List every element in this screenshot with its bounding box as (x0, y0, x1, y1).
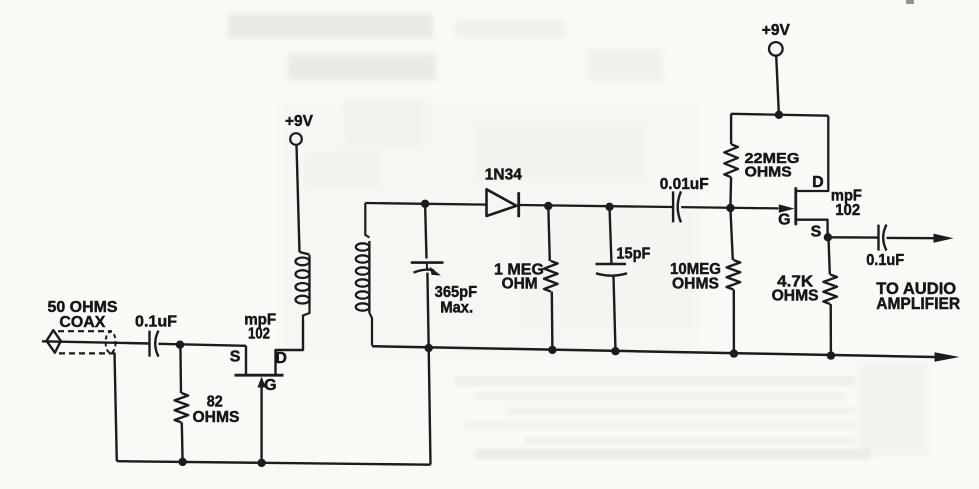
node R1 ground dot (178, 458, 186, 466)
node diode out dot (544, 202, 552, 210)
svg-text:365pF: 365pF (435, 284, 478, 301)
label Q1 102 (248, 325, 270, 342)
wire R1 to ground bus (181, 423, 184, 462)
svg-text:0.1uF: 0.1uF (135, 314, 177, 331)
capacitor C4 0.01uF (673, 191, 681, 222)
transistor Q1 gate arrow (257, 377, 265, 388)
wire C5 to output arrow (887, 237, 936, 240)
label C3 15pF (616, 246, 650, 263)
label R4 OHMS (672, 275, 719, 292)
svg-text:D: D (812, 174, 824, 191)
wire C2 center stub (426, 263, 428, 270)
svg-text:OHMS: OHMS (193, 409, 240, 426)
node 10MEG bus dot (730, 349, 738, 357)
node gate ground dot (257, 459, 265, 467)
node 365pF top dot (421, 200, 429, 208)
diode D1 1N34 triangle (487, 189, 517, 216)
svg-text:102: 102 (248, 325, 270, 342)
transistor Q2 source lead (796, 220, 828, 238)
svg-text:15pF: 15pF (616, 246, 650, 263)
label R4 10MEG (670, 261, 721, 278)
label R1 OHMS (193, 409, 240, 426)
label C2 365pF (435, 284, 478, 301)
label Q1 S (230, 349, 241, 366)
wire Q1 gate to ground (260, 385, 262, 463)
label Q1 D (275, 350, 287, 367)
label R2 OHM (502, 276, 538, 293)
svg-text:G: G (778, 211, 790, 228)
resistor R4 10MEG OHMS (727, 260, 741, 290)
wire C2 junction to bottom ground (429, 348, 431, 465)
label TO AUDIO (876, 279, 956, 298)
capacitor C3 15pF top plate (596, 263, 627, 266)
label R3 OHMS (745, 164, 792, 181)
output arrowhead audio (934, 234, 954, 243)
wire R2 to bus (551, 292, 554, 350)
resistor R1 82 OHMS (175, 393, 189, 423)
svg-text:AMPLIFIER: AMPLIFIER (876, 294, 960, 313)
coax connector plug (50 ohms coax) (47, 330, 61, 353)
svg-text:0.01uF: 0.01uF (660, 176, 709, 193)
svg-text:102: 102 (835, 202, 860, 219)
wire source to C5 (828, 236, 879, 239)
coax shield dashed bottom line (59, 352, 115, 354)
svg-text:Max.: Max. (440, 300, 473, 317)
svg-text:S: S (811, 224, 822, 241)
label Q1 G (264, 377, 276, 394)
node +9V rail dot (775, 111, 783, 119)
inductor L2 secondary coil (356, 203, 372, 346)
capacitor C5 0.1uF output (879, 225, 887, 251)
svg-text:D: D (275, 350, 287, 367)
node C3 bus dot (611, 347, 619, 355)
label R5 4.7K (777, 274, 813, 291)
wire junction to R1 (179, 345, 182, 393)
power terminal +9V circle (left) (290, 133, 302, 145)
svg-text:OHMS: OHMS (772, 288, 819, 305)
wire +9V horizontal rail (731, 114, 828, 116)
wire C2 to bus junction (427, 273, 428, 349)
wire 10MEG to bus (733, 290, 736, 354)
wire coax center conductor to C1 (42, 341, 150, 343)
label Q2 mpF (831, 188, 862, 205)
wire C3 to bus (614, 277, 616, 352)
svg-text:OHMS: OHMS (745, 164, 792, 181)
svg-text:0.1uF: 0.1uF (866, 252, 904, 269)
inductor L1 primary coil (296, 252, 310, 321)
label Q2 102 (835, 202, 860, 219)
svg-text:+9V: +9V (285, 113, 313, 130)
node R2 bus dot (548, 346, 556, 354)
resistor R3 22MEG OHMS (724, 144, 738, 177)
wire main bottom bus (372, 346, 935, 357)
wire dot to C3 (610, 207, 612, 264)
svg-text:82: 82 (207, 394, 223, 411)
wire +9V to L1 (297, 145, 300, 252)
label R3 22MEG (745, 150, 800, 167)
bus output arrowhead (935, 352, 960, 362)
svg-text:OHMS: OHMS (672, 275, 719, 292)
node bus/C2 junction dot (425, 344, 433, 352)
svg-text:1N34: 1N34 (485, 166, 522, 183)
wire bias column lower (730, 208, 732, 260)
wire bias column upper (729, 177, 732, 208)
node Q2 source dot (824, 233, 832, 241)
label +9V left (285, 113, 313, 130)
transistor Q1 drain lead (276, 321, 304, 375)
diode D1 cathode bar (517, 192, 520, 217)
node 15pF top dot (605, 203, 613, 211)
transistor Q2 channel bar (794, 187, 797, 225)
power terminal +9V circle (right) (769, 42, 783, 56)
label Q1 mpF (244, 311, 276, 328)
coax shield dashed top line (58, 330, 112, 332)
label C5 0.1uF (866, 252, 904, 269)
wire coax shield to ground bus (115, 353, 117, 462)
label D1 1N34 (485, 166, 522, 183)
label R2 1 MEG (494, 262, 544, 279)
wire R5 to bus (830, 304, 833, 356)
resistor R5 4.7K OHMS (823, 275, 837, 305)
wire +9V stem (776, 56, 779, 115)
wire rail to Q2 drain (796, 116, 829, 191)
transistor Q1 channel bar (235, 374, 284, 377)
transistor Q1 source lead (245, 346, 247, 375)
label COAX (59, 314, 105, 331)
capacitor C3 15pF curved plate (596, 273, 627, 275)
label C2 Max. (440, 300, 473, 317)
wire C1 to FET1 source (159, 344, 247, 346)
svg-text:OHM: OHM (502, 276, 538, 293)
wire bottom ground run (117, 461, 431, 465)
capacitor C2 365pF curved plate with arrow (414, 267, 442, 276)
label 50 OHMS (48, 299, 118, 316)
svg-text:+9V: +9V (762, 22, 790, 39)
resistor R2 1 MEG OHM (544, 261, 558, 292)
capacitor C1 0.1uF input (150, 331, 159, 357)
wire top detector bus (365, 203, 778, 208)
node bias column top-wire dot (726, 204, 734, 212)
node R5 bus dot (827, 351, 835, 359)
label C4 0.01uF (660, 176, 709, 193)
svg-text:S: S (230, 349, 241, 366)
svg-text:G: G (264, 377, 276, 394)
label AMPLIFIER (876, 294, 960, 313)
node input junction dot (176, 341, 184, 349)
wire dot to R2 (548, 206, 550, 261)
coax end dashed ellipse (106, 332, 116, 353)
wire source node to R5 (829, 237, 830, 274)
transistor Q2 gate arrow (779, 204, 795, 212)
label Q2 S (811, 224, 822, 241)
label R1 82 (207, 394, 223, 411)
label R5 OHMS (772, 288, 819, 305)
capacitor C2 365pF top plate (411, 261, 444, 264)
label +9V right (762, 22, 790, 39)
label Q2 D (812, 174, 824, 191)
label C1 0.1uF (135, 314, 177, 331)
wire top dot to C2 (425, 204, 426, 259)
label Q2 G (778, 211, 790, 228)
svg-text:COAX: COAX (59, 314, 105, 331)
wire 22MEG to +9V rail (730, 114, 732, 144)
